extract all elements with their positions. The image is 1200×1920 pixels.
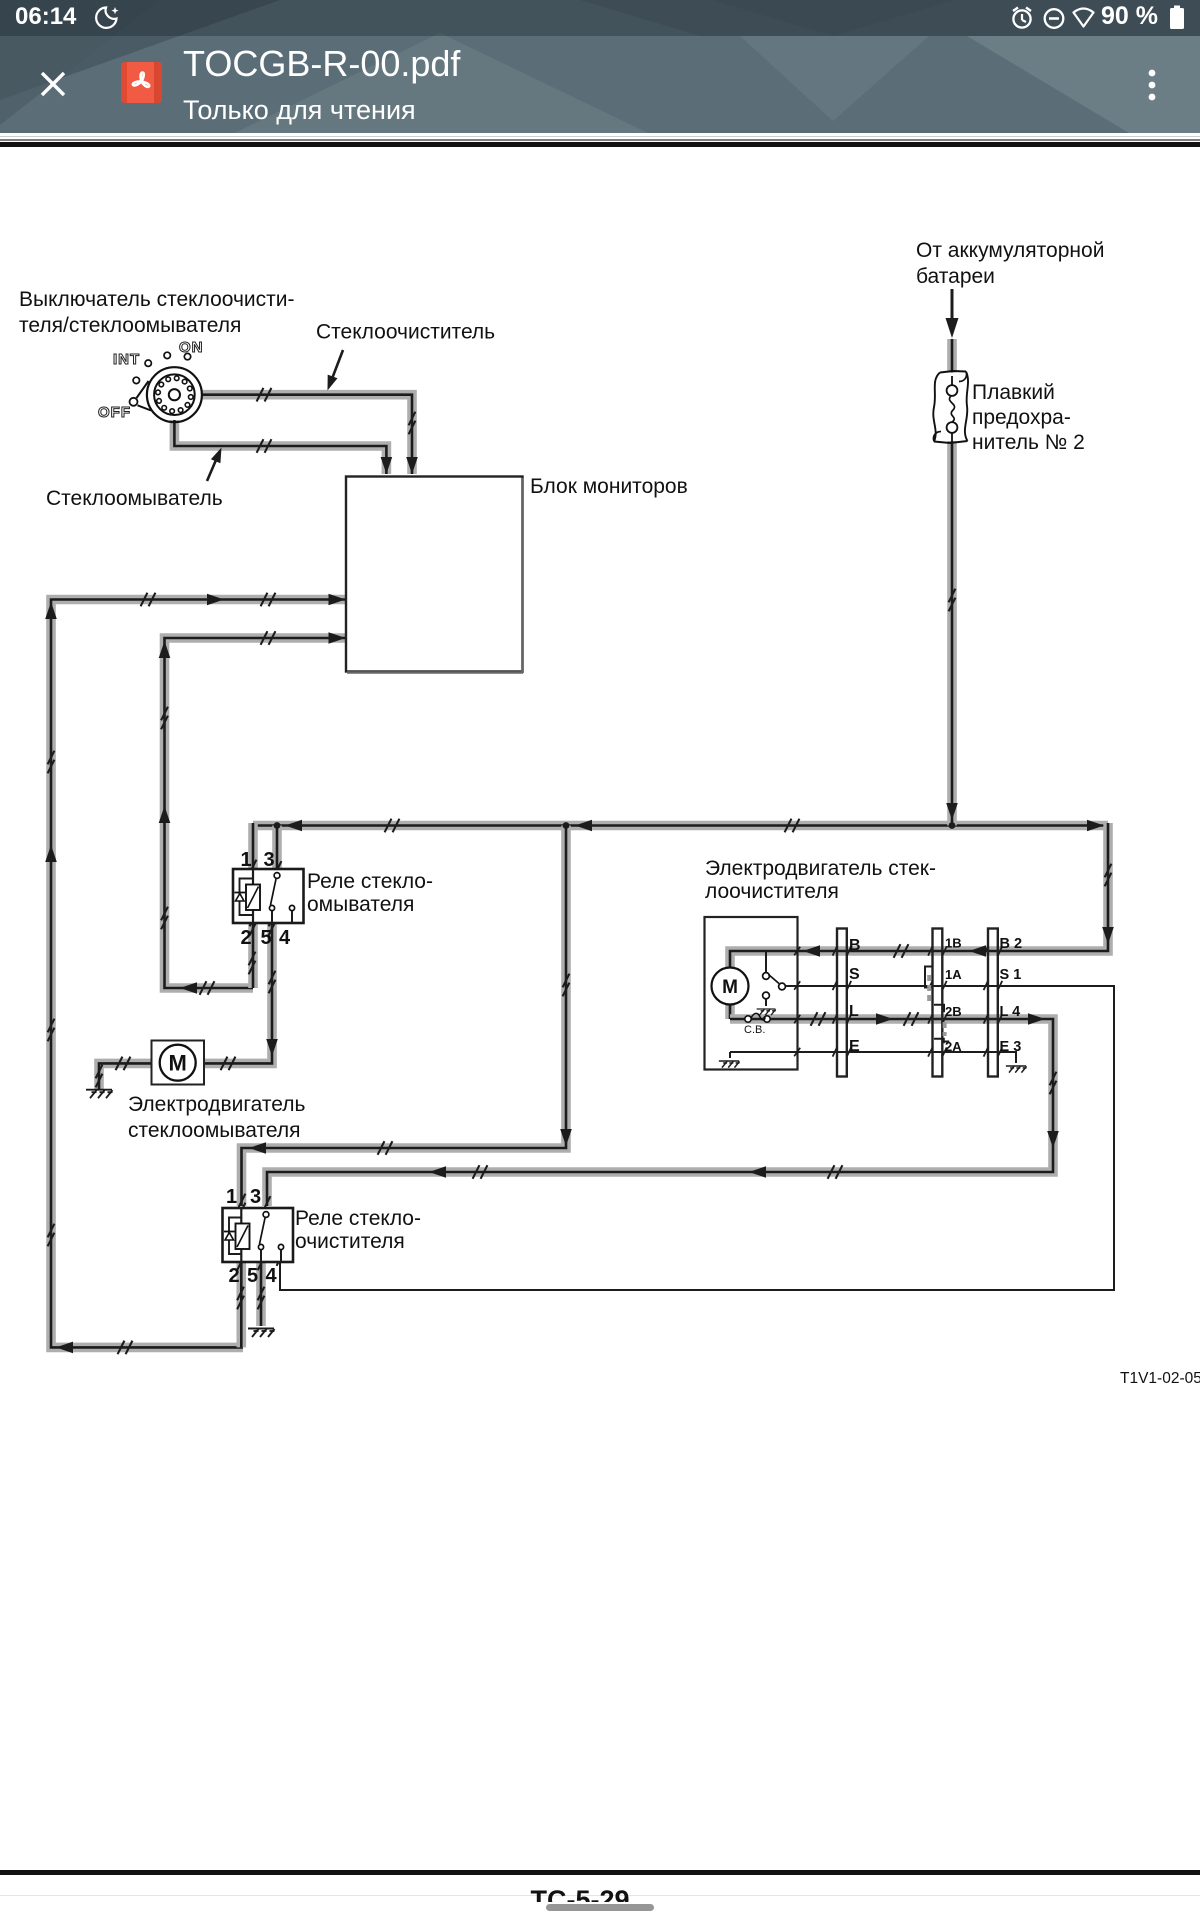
svg-text:2: 2 — [228, 1265, 239, 1287]
monitor unit (Блок мониторов) box — [346, 477, 523, 672]
status bar wifi icon — [1071, 4, 1101, 32]
page bottom printed rule — [0, 1870, 1200, 1875]
status bar battery percent — [1101, 2, 1158, 31]
wire: bus to wiper relay pin 1 — [242, 826, 567, 1207]
wire: washer relay pin 2 drop — [248, 923, 258, 988]
toolbar overflow menu — [1145, 66, 1159, 106]
svg-text:E 3: E 3 — [1000, 1039, 1022, 1055]
flow arrow up — [45, 602, 57, 619]
wiper motor M circle — [712, 968, 749, 1005]
svg-text:2B: 2B — [945, 1004, 962, 1019]
relay contact — [274, 873, 280, 879]
svg-text:Стеклоомыватель: Стеклоомыватель — [46, 487, 223, 510]
svg-text:Электродвигатель: Электродвигатель — [128, 1093, 305, 1116]
wire crossing slash — [118, 1341, 125, 1355]
svg-text:INT: INT — [113, 351, 140, 368]
relay coil — [229, 1218, 241, 1255]
joint connector jumpers at bar 2 — [925, 967, 933, 988]
wiper relay (Реле стекло-очистителя) — [223, 1208, 294, 1262]
flow arrow into monitor unit top — [406, 457, 418, 474]
flow arrow left on bus — [575, 820, 592, 832]
svg-text:Реле стекло-: Реле стекло- — [307, 870, 433, 893]
svg-text:1: 1 — [240, 849, 251, 871]
wire: main feed bus — [253, 821, 1108, 831]
wire: monitor unit to washer relay pin 2 run — [165, 638, 347, 988]
wire crossing slash — [828, 1165, 835, 1179]
flow arrow into monitor unit — [329, 594, 346, 606]
svg-text:Электродвигатель стек-: Электродвигатель стек- — [705, 857, 936, 880]
status bar crescent (night mode) icon — [94, 4, 126, 36]
wire crossing slash — [48, 1019, 55, 1033]
wire crossing slash — [161, 707, 168, 721]
svg-text:лоочистителя: лоочистителя — [705, 880, 839, 903]
fusible link No.2 symbol — [932, 372, 968, 441]
svg-text:очистителя: очистителя — [295, 1230, 405, 1253]
svg-text:S 1: S 1 — [1000, 967, 1022, 983]
flow arrow left into motor B — [803, 945, 820, 957]
wire: wiper motor E line — [730, 1052, 1016, 1063]
junction: bus / fusible link — [949, 822, 956, 829]
wire crossing slash — [563, 974, 570, 988]
flow arrow right — [207, 594, 224, 606]
svg-text:предохра-: предохра- — [972, 406, 1071, 429]
flow arrow left — [56, 1342, 73, 1354]
wire crossing slash — [258, 1248, 265, 1262]
wire: wiper motor S to wiper relay pin 4 — [280, 986, 1114, 1290]
wire crossing slash — [239, 1194, 246, 1208]
flow arrow left — [429, 1166, 446, 1178]
wire: washer relay pin 1 feed — [248, 823, 258, 869]
battery feed arrowhead — [946, 318, 959, 338]
flow arrow right on L line — [876, 1013, 893, 1025]
status bar clock — [15, 3, 76, 31]
flow arrow left — [180, 982, 197, 994]
svg-text:B: B — [849, 937, 861, 954]
svg-text:1B: 1B — [945, 936, 962, 951]
flow arrow up — [159, 641, 171, 658]
svg-text:батареи: батареи — [916, 265, 995, 288]
battery feed lead-in arrow — [951, 289, 954, 318]
flow arrow left on B line — [969, 945, 986, 957]
wire crossing slash — [894, 944, 901, 958]
wire crossing slash — [785, 819, 792, 833]
toolbar close (X) button — [38, 69, 68, 99]
svg-text:Плавкий: Плавкий — [972, 381, 1055, 404]
wire crossing slash — [48, 751, 55, 765]
wire: bus to wiper motor terminal B — [730, 823, 1108, 1019]
svg-text:B 2: B 2 — [1000, 936, 1023, 952]
svg-text:3: 3 — [263, 849, 274, 871]
flow arrow into monitor unit — [329, 632, 346, 644]
wire crossing slash — [237, 1287, 244, 1301]
svg-text:стеклоомывателя: стеклоомывателя — [128, 1119, 301, 1142]
wire: wiper motor L to wiper relay pin 3 — [267, 1019, 1053, 1206]
svg-text:M: M — [169, 1051, 187, 1076]
wiper/washer switch SW1 rotary symbol — [130, 367, 202, 422]
wire: fusible link to bus — [947, 339, 957, 826]
ground: E3 line — [1006, 1066, 1027, 1073]
wire crossing slash — [409, 412, 416, 426]
wire: washer motor to ground — [99, 1063, 151, 1089]
wire: park switch feed — [765, 951, 767, 972]
wire crossing slash — [237, 1248, 244, 1262]
flow arrow into washer motor — [266, 1039, 278, 1056]
wire crossing slash — [811, 1012, 818, 1026]
wire: park switch ground leg — [765, 999, 767, 1006]
svg-text:2A: 2A — [945, 1039, 962, 1054]
svg-text:С.В.: С.В. — [744, 1024, 765, 1036]
svg-text:1A: 1A — [945, 967, 962, 982]
wire: wiper switch to monitor unit — [202, 395, 412, 474]
wiper relay pin 3 slash — [264, 1196, 271, 1210]
svg-text:5: 5 — [260, 927, 271, 949]
svg-text:2: 2 — [240, 927, 251, 949]
washer motor M box — [152, 1041, 205, 1085]
wire: washer relay pin 3 feed — [272, 826, 282, 873]
circuit breaker C.B. on L line — [745, 1016, 751, 1022]
ground: wiper relay pin 5 — [248, 1329, 275, 1338]
svg-text:4: 4 — [279, 927, 291, 949]
wiper motor assembly box — [705, 917, 798, 1070]
flow arrow up — [159, 806, 171, 823]
relay coil — [240, 879, 254, 916]
header background triangle pattern — [0, 0, 1200, 133]
wire: washer switch to monitor unit — [174, 420, 386, 474]
wiper relay pin 4 slash — [277, 1252, 284, 1266]
connector bar 2 — [933, 929, 943, 1077]
junction: bus / washer relay pin 3 — [274, 822, 281, 829]
washer motor M circle — [160, 1045, 196, 1081]
wire crossing slash — [1050, 1072, 1057, 1086]
wire crossing slash — [949, 589, 956, 603]
wire crossing slash — [250, 860, 257, 874]
flow arrow down — [1047, 1131, 1059, 1148]
wire crossing slash — [161, 907, 168, 921]
wire crossing slash — [257, 388, 264, 402]
svg-text:T1V1-02-05-00: T1V1-02-05-00 — [1120, 1370, 1200, 1387]
wire crossing slash — [257, 439, 264, 453]
page top edge hairlines — [0, 136, 1200, 137]
wire crossing slash — [473, 1165, 480, 1179]
flow arrow right on L line — [1028, 1013, 1045, 1025]
relay contact — [263, 1212, 269, 1218]
svg-text:Блок мониторов: Блок мониторов — [530, 475, 688, 498]
status bar dim overlay — [0, 0, 1200, 36]
park switch contacts — [763, 973, 770, 980]
svg-text:ON: ON — [179, 339, 204, 356]
flow arrow into monitor unit top — [381, 457, 393, 474]
wire: motor case ground leg — [729, 1052, 731, 1058]
flow arrow left — [249, 1142, 266, 1154]
svg-text:S: S — [849, 966, 860, 983]
wire crossing slash — [96, 1065, 103, 1079]
svg-text:Выключатель стеклоочисти-: Выключатель стеклоочисти- — [19, 288, 295, 311]
wire: monitor unit to left spine to wiper relay pin 2 run — [51, 600, 346, 1348]
connector bar 3 — [988, 929, 998, 1077]
pointer arrow: Стеклоомыватель to wire — [207, 453, 219, 481]
page top printed rule — [0, 142, 1200, 147]
wire crossing slash — [200, 981, 207, 995]
junction: bus / wiper relay feed — [563, 822, 570, 829]
page bottom boundary — [0, 1895, 1200, 1896]
pin ticks at wiper motor box edge — [794, 947, 800, 955]
svg-text:3: 3 — [250, 1186, 261, 1208]
svg-text:Стеклоочиститель: Стеклоочиститель — [316, 321, 495, 344]
flow arrow left on bus — [285, 820, 302, 832]
svg-text:теля/стеклоомывателя: теля/стеклоомывателя — [19, 314, 241, 337]
relay diode symbol — [224, 1231, 235, 1233]
ground: wiper motor case — [719, 1061, 740, 1068]
svg-text:L: L — [849, 1003, 859, 1020]
relay diode symbol — [235, 892, 246, 894]
connector bar 1 — [837, 929, 847, 1077]
svg-text:От аккумуляторной: От аккумуляторной — [916, 239, 1104, 262]
flow arrow up — [45, 845, 57, 862]
wire crossing slash — [141, 593, 148, 607]
wire crossing slash — [116, 1057, 123, 1071]
wire crossing slash — [48, 1224, 55, 1238]
wire crossing slash — [250, 913, 257, 927]
wire crossing slash — [249, 952, 256, 966]
svg-text:E: E — [849, 1038, 860, 1055]
flow arrow down — [1102, 927, 1114, 944]
wire crossing slash — [221, 1057, 228, 1071]
pointer arrow: Стеклоочиститель to wire — [330, 350, 343, 384]
wire crossing slash — [1105, 864, 1112, 878]
washer relay pin 3 slash — [275, 861, 282, 875]
flow arrow down — [560, 1129, 572, 1146]
svg-text:M: M — [722, 977, 738, 998]
svg-text:4: 4 — [265, 1265, 277, 1287]
svg-text:1: 1 — [226, 1186, 237, 1208]
svg-text:L 4: L 4 — [1000, 1004, 1021, 1020]
wire crossing slash — [385, 819, 392, 833]
status bar alarm icon — [1009, 4, 1035, 32]
gesture navigation pill — [546, 1904, 654, 1911]
flow arrow right on bus — [1087, 820, 1104, 832]
toolbar title — [183, 43, 460, 85]
switch position dots — [164, 352, 170, 358]
ground: park switch — [757, 1009, 776, 1015]
wire crossing slash — [261, 593, 268, 607]
wire crossing slash — [904, 1012, 911, 1026]
svg-text:омывателя: омывателя — [307, 893, 414, 916]
svg-text:нитель № 2: нитель № 2 — [972, 431, 1085, 454]
flow arrow down from fusible link — [946, 803, 958, 820]
status bar battery icon — [1167, 3, 1189, 33]
pointer arrowhead — [328, 375, 338, 391]
PDF app icon — [121, 62, 162, 103]
svg-text:OFF: OFF — [98, 404, 131, 421]
wire: washer relay pin 5 to washer motor — [205, 923, 272, 1063]
wire crossing slash — [261, 631, 268, 645]
wire crossing slash — [258, 1287, 265, 1301]
pointer arrowhead — [211, 448, 222, 464]
washer relay (Реле стекло-омывателя) — [233, 869, 304, 923]
ground: washer motor — [86, 1090, 113, 1099]
wire crossing slash — [269, 913, 276, 927]
flow arrow left — [749, 1166, 766, 1178]
wire: wiper relay pin 2 drop — [237, 1261, 247, 1347]
wire crossing slash — [378, 1141, 385, 1155]
toolbar subtitle — [183, 95, 416, 126]
wire: wiper relay pin 5 to ground — [256, 1261, 266, 1326]
status bar do-not-disturb icon — [1041, 4, 1067, 32]
wire crossing slash — [269, 971, 276, 985]
page number text (clipped) — [450, 1885, 710, 1902]
svg-text:5: 5 — [247, 1265, 258, 1287]
svg-text:Реле стекло-: Реле стекло- — [295, 1207, 421, 1230]
